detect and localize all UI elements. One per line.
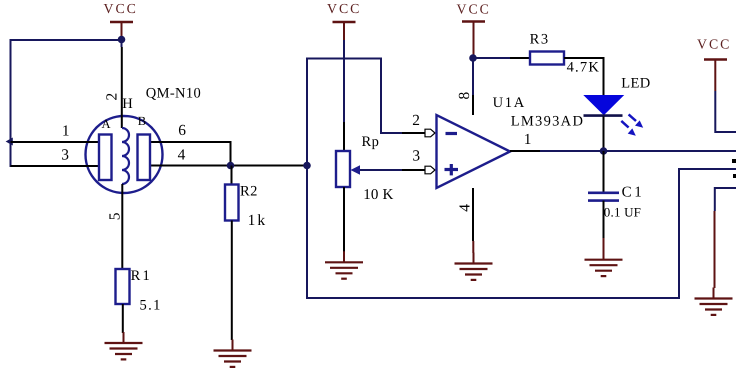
svg-text:LED: LED (621, 76, 650, 92)
svg-text:2: 2 (104, 93, 121, 101)
svg-text:Rp: Rp (362, 134, 380, 150)
svg-text:QM-N10: QM-N10 (146, 86, 201, 102)
svg-text:2: 2 (412, 112, 420, 129)
svg-text:LM393AD: LM393AD (511, 113, 585, 129)
svg-text:C1: C1 (622, 185, 645, 201)
svg-text:6: 6 (178, 122, 186, 139)
svg-text:U1A: U1A (493, 95, 526, 111)
svg-text:4: 4 (178, 147, 186, 164)
svg-text:3: 3 (61, 147, 69, 164)
svg-text:VCC: VCC (457, 2, 491, 17)
svg-text:A: A (102, 117, 111, 131)
svg-text:R1: R1 (131, 268, 152, 284)
svg-text:1: 1 (62, 123, 70, 140)
svg-text:H: H (122, 96, 133, 112)
svg-text:5: 5 (107, 212, 124, 220)
svg-text:VCC: VCC (104, 1, 138, 16)
svg-text:3: 3 (412, 148, 420, 165)
svg-text:R3: R3 (530, 32, 550, 48)
svg-text:4.7K: 4.7K (567, 59, 600, 75)
svg-text:VCC: VCC (327, 1, 361, 16)
svg-text:1k: 1k (248, 212, 268, 229)
svg-text:R2: R2 (240, 184, 258, 200)
svg-text:1: 1 (524, 131, 532, 148)
svg-text:10 K: 10 K (363, 187, 393, 203)
svg-text:8: 8 (456, 92, 473, 100)
svg-text:5.1: 5.1 (140, 298, 162, 314)
svg-text:4: 4 (456, 204, 473, 212)
svg-text:VCC: VCC (697, 37, 731, 52)
svg-text:B: B (138, 114, 146, 128)
svg-text:0.1 UF: 0.1 UF (604, 205, 641, 220)
